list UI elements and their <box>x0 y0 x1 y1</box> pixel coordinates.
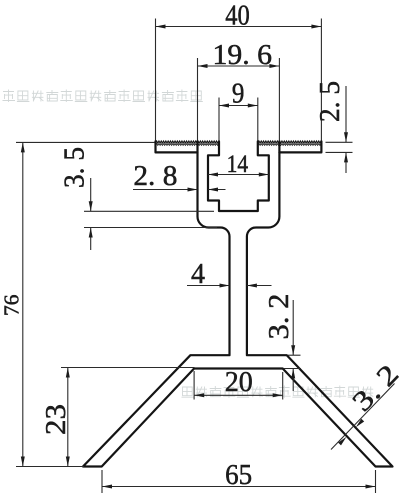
watermark text line 1 <box>3 90 203 103</box>
serrated clamping surface (top zigzag rows) <box>156 141 322 145</box>
dimension 9 (slot width) <box>219 78 258 140</box>
dimension 23 (leg height) <box>41 368 195 467</box>
watermark text line 2 <box>182 386 374 398</box>
dimension 40 (top width) <box>156 0 322 140</box>
channel right wall edge through flange <box>278 141 280 152</box>
svg-text:76: 76 <box>0 294 23 316</box>
svg-text:40: 40 <box>225 0 250 31</box>
svg-text:19. 6: 19. 6 <box>213 40 273 71</box>
dimension 65 (bottom width) <box>102 460 376 493</box>
svg-text:14: 14 <box>227 151 249 178</box>
svg-text:3. 5: 3. 5 <box>60 147 91 188</box>
svg-text:9: 9 <box>232 78 245 109</box>
dimension 3.2 (leg thickness) <box>331 359 405 450</box>
channel left wall edge through flange <box>196 141 198 152</box>
dimension 76 (overall height) <box>0 142 154 466</box>
svg-text:20: 20 <box>225 367 253 398</box>
profile inner cavity (slot and channel) <box>208 141 269 211</box>
dimension 2.5 (flange thickness) <box>315 81 352 173</box>
dimension 20 (plate bottom width) <box>194 367 283 400</box>
dimension 14 (cavity width) <box>208 151 269 178</box>
dimension 19.6 (channel outer width) <box>198 40 280 141</box>
svg-text:23: 23 <box>41 404 72 435</box>
dimension 2.8 (channel wall thickness) <box>133 161 226 192</box>
dimension 3.2 (base plate thickness) <box>264 294 301 392</box>
dimension 4 (stem width) <box>187 259 272 290</box>
svg-text:4: 4 <box>191 259 205 290</box>
svg-text:65: 65 <box>225 460 252 491</box>
dimension 3.5 (channel floor thickness) <box>60 147 218 250</box>
svg-text:2. 8: 2. 8 <box>133 161 177 192</box>
svg-text:2. 5: 2. 5 <box>315 81 346 122</box>
svg-text:3. 2: 3. 2 <box>264 294 295 340</box>
profile outer outline (flanges, channel walls, stem, base legs) <box>83 141 393 466</box>
